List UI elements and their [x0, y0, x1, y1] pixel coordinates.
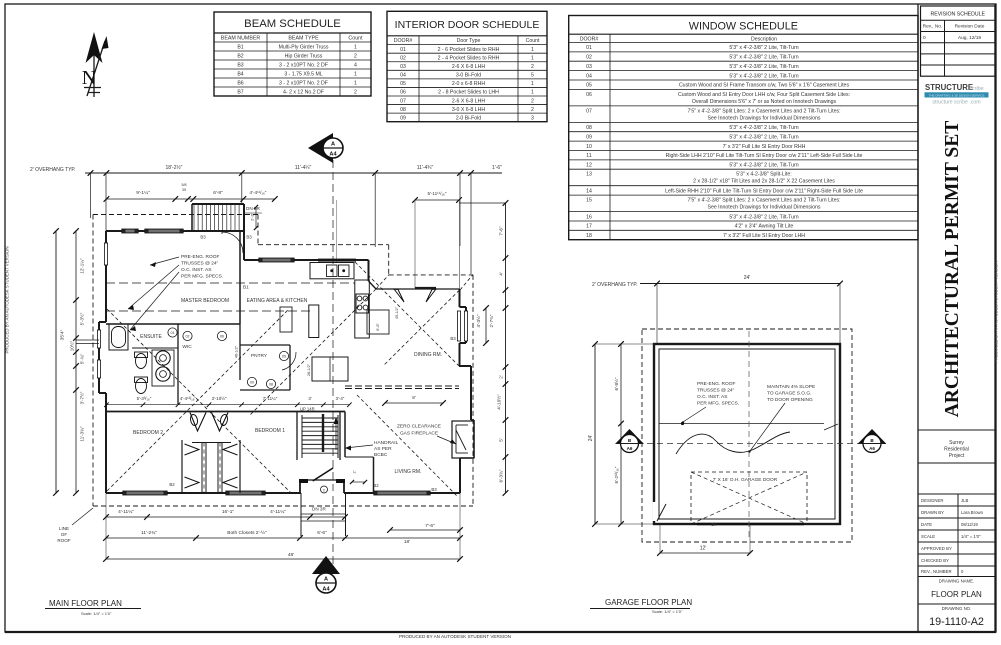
svg-text:HANDRAIL: HANDRAIL [374, 440, 399, 446]
svg-text:TRUSSES @ 24": TRUSSES @ 24" [181, 261, 219, 267]
svg-text:Door Type: Door Type [457, 38, 481, 44]
svg-text:2 - 8 Pocket Slides to LHH: 2 - 8 Pocket Slides to LHH [438, 90, 499, 96]
svg-text:1/4" = 1'0": 1/4" = 1'0" [961, 534, 981, 539]
svg-text:LINE: LINE [59, 526, 69, 531]
svg-text:Custom Wood and SI Entry Door: Custom Wood and SI Entry Door LHH c/w, F… [678, 92, 850, 98]
svg-text:Count: Count [526, 38, 540, 44]
svg-text:06: 06 [220, 335, 224, 339]
svg-text:16: 16 [586, 214, 592, 220]
svg-text:10: 10 [586, 144, 592, 150]
svg-text:18'-2½": 18'-2½" [166, 164, 183, 171]
svg-text:09: 09 [586, 134, 592, 140]
svg-text:B7: B7 [237, 90, 243, 96]
svg-text:A6: A6 [869, 446, 875, 451]
svg-text:Lara Brown: Lara Brown [961, 510, 984, 515]
svg-text:A4: A4 [322, 587, 330, 593]
svg-text:B3: B3 [200, 235, 206, 240]
svg-text:09: 09 [250, 381, 254, 385]
svg-text:Scale: 1/4" = 1'0": Scale: 1/4" = 1'0" [81, 611, 112, 616]
svg-text:B2: B2 [373, 483, 379, 488]
svg-text:09: 09 [400, 115, 406, 121]
svg-text:Multi-Ply Girder Truss: Multi-Ply Girder Truss [279, 45, 329, 51]
svg-text:1: 1 [531, 90, 534, 96]
svg-text:B3: B3 [246, 235, 252, 240]
svg-text:DRAWN BY: DRAWN BY [921, 510, 944, 515]
svg-text:Overall Dimensions 5'6" x 7' o: Overall Dimensions 5'6" x 7' or as Noted… [692, 99, 837, 105]
svg-text:EATING AREA & KITCHEN: EATING AREA & KITCHEN [247, 298, 308, 304]
svg-text:17: 17 [586, 224, 592, 230]
svg-text:5'-3½": 5'-3½" [79, 312, 85, 325]
svg-text:TRUSSES @ 24": TRUSSES @ 24" [697, 388, 735, 394]
svg-text:PNTRY: PNTRY [251, 353, 268, 359]
svg-text:7'5" x 4'-2-3/8" Split Lites:: 7'5" x 4'-2-3/8" Split Lites: 2 x Caseme… [687, 198, 840, 204]
svg-text:N: N [82, 67, 96, 89]
svg-text:Residential: Residential [944, 447, 969, 453]
svg-text:7'-6": 7'-6" [425, 523, 435, 529]
svg-text:structure scribe .com: structure scribe .com [932, 100, 980, 106]
svg-text:B2: B2 [237, 54, 243, 60]
svg-text:4'-10½": 4'-10½" [496, 394, 502, 410]
svg-text:WIC: WIC [182, 344, 192, 350]
svg-text:13: 13 [586, 172, 592, 178]
svg-text:1: 1 [531, 81, 534, 87]
svg-text:2 - 4 Pocket Slides to RHH: 2 - 4 Pocket Slides to RHH [438, 55, 500, 61]
svg-text:2-0 Bi-Fold: 2-0 Bi-Fold [456, 115, 481, 121]
svg-text:4: 4 [354, 63, 357, 69]
svg-text:6'-8": 6'-8" [213, 190, 223, 196]
svg-text:BEDROOM 1: BEDROOM 1 [255, 428, 285, 434]
svg-text:12': 12' [700, 546, 707, 552]
svg-text:LIVING RM.: LIVING RM. [395, 469, 422, 475]
svg-text:01: 01 [586, 45, 592, 51]
svg-text:MAINTAIN 4% SLOPE: MAINTAIN 4% SLOPE [767, 384, 815, 390]
svg-text:2: 2 [531, 64, 534, 70]
svg-text:16'-1": 16'-1" [222, 509, 235, 515]
svg-text:DRAWING NAME.: DRAWING NAME. [939, 579, 974, 584]
svg-text:MAIN FLOOR PLAN: MAIN FLOOR PLAN [49, 599, 122, 608]
svg-text:C: C [323, 488, 326, 492]
svg-text:5'3" x 4'-2-3/8" 2 Lite, Tilt-: 5'3" x 4'-2-3/8" 2 Lite, Tilt-Turn [729, 64, 798, 70]
svg-text:35: 35 [182, 188, 186, 192]
svg-text:15: 15 [586, 198, 592, 204]
svg-text:03: 03 [586, 64, 592, 70]
svg-text:05: 05 [586, 83, 592, 89]
svg-text:5'-11¹¹/₁₆": 5'-11¹¹/₁₆" [427, 191, 446, 196]
svg-text:4'-11¼": 4'-11¼" [270, 509, 286, 515]
svg-text:Scale: 1/4" = 1'0": Scale: 1/4" = 1'0" [652, 609, 683, 614]
svg-text:19-1110-A2: 19-1110-A2 [929, 616, 984, 628]
svg-text:3: 3 [531, 115, 534, 121]
svg-text:A6: A6 [627, 446, 633, 451]
svg-text:THE DRAFTING & 3D DESIGN SERVI: THE DRAFTING & 3D DESIGN SERVICE [929, 93, 985, 97]
svg-text:05: 05 [400, 81, 406, 87]
svg-text:35'4": 35'4" [60, 329, 66, 340]
svg-text:6'-6": 6'-6" [376, 323, 380, 331]
svg-text:5'3" x 4'-2-3/8" 2 Lite, Tilt-: 5'3" x 4'-2-3/8" 2 Lite, Tilt-Turn [729, 214, 798, 220]
svg-text:49-1/2": 49-1/2" [395, 306, 399, 319]
svg-text:FLOOR PLAN: FLOOR PLAN [931, 590, 982, 599]
svg-text:3 - 2 x10PT No. 2 DF: 3 - 2 x10PT No. 2 DF [279, 81, 328, 87]
svg-text:INTERIOR DOOR SCHEDULE: INTERIOR DOOR SCHEDULE [395, 19, 540, 31]
svg-text:Project: Project [949, 453, 965, 459]
svg-text:2': 2' [499, 375, 504, 379]
svg-text:OF: OF [61, 532, 68, 537]
svg-text:04: 04 [400, 73, 406, 79]
svg-text:1: 1 [354, 45, 357, 51]
svg-text:Surrey: Surrey [949, 440, 964, 446]
svg-text:4'2" x 3'4" Awning Tilt Lite: 4'2" x 3'4" Awning Tilt Lite [735, 224, 794, 230]
svg-text:14: 14 [586, 188, 592, 194]
svg-text:18: 18 [586, 233, 592, 239]
svg-text:WINDOW SCHEDULE: WINDOW SCHEDULE [689, 21, 798, 33]
svg-text:Count: Count [348, 36, 363, 42]
svg-text:PER MFG. SPECS.: PER MFG. SPECS. [697, 401, 739, 407]
svg-text:DESIGNER: DESIGNER [921, 498, 943, 503]
svg-text:5: 5 [531, 73, 534, 79]
svg-text:B2: B2 [169, 482, 175, 487]
svg-text:2: 2 [531, 107, 534, 113]
svg-text:48': 48' [288, 552, 294, 558]
svg-text:Aug, 12/19: Aug, 12/19 [958, 35, 982, 41]
svg-text:B1: B1 [237, 45, 243, 51]
svg-text:02: 02 [186, 335, 190, 339]
svg-text:A: A [324, 577, 328, 583]
svg-text:11'-4¾": 11'-4¾" [417, 165, 434, 171]
svg-text:2' OVERHANG TYP.: 2' OVERHANG TYP. [30, 167, 76, 173]
svg-text:B6: B6 [237, 81, 243, 87]
svg-text:05: 05 [282, 355, 286, 359]
svg-text:PRODUCED BY AN AUTODESK STUDEN: PRODUCED BY AN AUTODESK STUDENT VERSION [399, 634, 511, 639]
svg-text:4'-4¹³/₁₆": 4'-4¹³/₁₆" [180, 396, 197, 401]
svg-text:02: 02 [586, 55, 592, 61]
svg-text:5'3" x 4'-2-3/8" 2 Lite, Tilt-: 5'3" x 4'-2-3/8" 2 Lite, Tilt-Turn [729, 73, 798, 79]
svg-text:TO GARAGE S.O.G.: TO GARAGE S.O.G. [767, 391, 811, 397]
svg-text:5/8: 5/8 [182, 183, 187, 187]
svg-text:Custom Wood and SI Frame Trans: Custom Wood and SI Frame Transom c/w, Tw… [679, 83, 850, 89]
svg-text:BEAM SCHEDULE: BEAM SCHEDULE [244, 18, 341, 30]
svg-text:4- 2 x 12 No.2 DF: 4- 2 x 12 No.2 DF [283, 90, 324, 96]
svg-text:1'-6": 1'-6" [492, 165, 502, 171]
svg-text:2 - 6 Pocket Slides to RHH: 2 - 6 Pocket Slides to RHH [438, 47, 500, 53]
svg-text:7'5" x 4'-2-3/8" Split Lites:: 7'5" x 4'-2-3/8" Split Lites: 2 x Caseme… [687, 108, 840, 114]
svg-text:Rev., No.: Rev., No. [923, 24, 943, 30]
svg-text:01: 01 [171, 331, 175, 335]
svg-text:APPROVED BY: APPROVED BY [921, 546, 952, 551]
svg-text:3 - 1.75 X9.5 ML: 3 - 1.75 X9.5 ML [284, 72, 322, 78]
svg-text:2': 2' [352, 470, 357, 473]
svg-text:11'-4¼": 11'-4¼" [295, 165, 312, 171]
svg-text:3'-10½": 3'-10½" [212, 396, 227, 401]
svg-text:3': 3' [308, 396, 311, 401]
svg-text:5'3" x 4'-2-3/8" 2 Lite, Tilt-: 5'3" x 4'-2-3/8" 2 Lite, Tilt-Turn [729, 125, 798, 131]
svg-text:DN 9R: DN 9R [246, 206, 260, 211]
svg-text:11: 11 [586, 153, 591, 159]
svg-text:24': 24' [744, 275, 751, 281]
svg-text:scribe: scribe [969, 86, 984, 92]
svg-text:O.C. INST. AS: O.C. INST. AS [697, 394, 727, 400]
svg-text:DOOR#: DOOR# [580, 36, 599, 42]
svg-text:4'-11¼": 4'-11¼" [118, 509, 134, 515]
svg-text:4': 4' [499, 272, 504, 276]
svg-text:PRE-ENG. ROOF: PRE-ENG. ROOF [181, 254, 219, 260]
svg-text:ZERO CLEARANCE: ZERO CLEARANCE [397, 424, 441, 430]
svg-text:07: 07 [400, 98, 406, 104]
svg-text:2-0 x 6-8 RHH: 2-0 x 6-8 RHH [452, 81, 485, 87]
svg-text:BEAM TYPE: BEAM TYPE [288, 36, 319, 42]
svg-text:ARCHITECTURAL PERMIT SET: ARCHITECTURAL PERMIT SET [942, 121, 963, 418]
svg-text:03: 03 [400, 64, 406, 70]
svg-text:04: 04 [586, 73, 592, 79]
svg-text:2' OVERHANG TYP.: 2' OVERHANG TYP. [592, 282, 638, 288]
svg-text:10½": 10½" [69, 340, 75, 351]
svg-text:SCALE: SCALE [921, 534, 935, 539]
svg-text:REV., NUMBER: REV., NUMBER [921, 569, 952, 574]
svg-text:1: 1 [531, 55, 534, 61]
svg-text:B3: B3 [431, 487, 437, 492]
svg-text:2-6 X 6-8 LHH: 2-6 X 6-8 LHH [452, 64, 485, 70]
svg-text:3-0 Bi-Fold: 3-0 Bi-Fold [456, 73, 481, 79]
svg-text:24': 24' [588, 435, 594, 442]
svg-text:2'-7¾": 2'-7¾" [489, 314, 494, 327]
svg-text:PRODUCED BY AN AUTODESK STUDEN: PRODUCED BY AN AUTODESK STUDENT VERSION [994, 261, 999, 363]
svg-text:DOOR#: DOOR# [394, 38, 413, 44]
svg-text:8': 8' [412, 395, 416, 400]
svg-text:Right-Side LHH 2'10" Full Lite: Right-Side LHH 2'10" Full Lite Tilt-Turn… [666, 153, 863, 159]
svg-text:DRAWING NO.: DRAWING NO. [942, 606, 971, 611]
svg-text:2: 2 [354, 54, 357, 60]
svg-text:GARAGE FLOOR PLAN: GARAGE FLOOR PLAN [605, 598, 692, 607]
svg-text:5'-3³/₁₆": 5'-3³/₁₆" [137, 396, 152, 401]
svg-text:12: 12 [586, 163, 592, 169]
svg-text:6'-8½": 6'-8½" [613, 377, 619, 390]
svg-text:CHECKED BY: CHECKED BY [921, 558, 949, 563]
svg-text:3 - 2 x10PT No. 2 DF: 3 - 2 x10PT No. 2 DF [279, 63, 328, 69]
svg-text:BEDROOM 2: BEDROOM 2 [133, 430, 163, 436]
svg-text:PER MFG. SPECS.: PER MFG. SPECS. [181, 274, 223, 280]
svg-text:B3: B3 [450, 336, 456, 341]
svg-text:GAS FIREPLACE: GAS FIREPLACE [400, 431, 438, 437]
svg-text:PRODUCED BY AN AUTODESK STUDEN: PRODUCED BY AN AUTODESK STUDENT VERSION [5, 246, 10, 353]
svg-text:7' X 16' O.H. GARAGE DOOR: 7' X 16' O.H. GARAGE DOOR [713, 477, 778, 483]
svg-text:6'-2¹³/₁₆": 6'-2¹³/₁₆" [614, 466, 619, 483]
svg-text:2'-3": 2'-3" [250, 213, 255, 221]
svg-text:08: 08 [400, 107, 406, 113]
svg-text:46-1/2": 46-1/2" [235, 345, 239, 358]
svg-text:PRE-ENG. ROOF: PRE-ENG. ROOF [697, 381, 735, 387]
svg-text:5': 5' [499, 438, 504, 442]
svg-text:B4: B4 [237, 72, 243, 78]
svg-text:1: 1 [354, 81, 357, 87]
svg-text:2 x 28-1/2" x18" Tilt Lites an: 2 x 28-1/2" x18" Tilt Lites and 2x 28-1/… [693, 179, 835, 185]
svg-text:0: 0 [923, 35, 926, 41]
svg-text:3'-7½": 3'-7½" [79, 391, 85, 404]
svg-text:2-6 X 6-8 LHH: 2-6 X 6-8 LHH [452, 98, 485, 104]
svg-text:5'3" x 4'-2-3/8" 2 Lite, Tilt-: 5'3" x 4'-2-3/8" 2 Lite, Tilt-Turn [729, 163, 798, 169]
svg-text:3'-4": 3'-4" [336, 396, 345, 401]
svg-text:See Innotech Drawings for Indi: See Innotech Drawings for Individual Dim… [707, 115, 820, 121]
svg-text:5'-¾": 5'-¾" [80, 353, 85, 364]
svg-text:08: 08 [586, 125, 592, 131]
svg-text:7' x 3'2" Full Lite SI Entry D: 7' x 3'2" Full Lite SI Entry Door LHH [723, 233, 805, 239]
svg-text:Both Closets 2'-½": Both Closets 2'-½" [227, 529, 267, 536]
svg-text:1: 1 [354, 72, 357, 78]
svg-text:3-0 X 6-8 LHH: 3-0 X 6-8 LHH [452, 107, 485, 113]
svg-text:08/12/19: 08/12/19 [961, 522, 978, 527]
svg-text:7'-11¼": 7'-11¼" [263, 396, 278, 401]
svg-text:11'-3¾": 11'-3¾" [80, 426, 85, 441]
svg-text:5'3" x 4'-2-3/8" 2 Lite, Tilt-: 5'3" x 4'-2-3/8" 2 Lite, Tilt-Turn [729, 45, 798, 51]
svg-text:A4: A4 [329, 152, 337, 158]
svg-text:5'3" x 4'-2-3/8" 2 Lite, Tilt-: 5'3" x 4'-2-3/8" 2 Lite, Tilt-Turn [729, 55, 798, 61]
svg-text:A: A [331, 142, 335, 148]
svg-text:Hip Girder Truss: Hip Girder Truss [285, 54, 323, 60]
svg-text:BCBC: BCBC [374, 452, 388, 458]
svg-text:See Innotech Drawings for Indi: See Innotech Drawings for Individual Dim… [707, 205, 820, 211]
svg-text:28-1/2": 28-1/2" [307, 363, 311, 376]
svg-text:DINING RM.: DINING RM. [414, 352, 442, 358]
svg-text:2: 2 [354, 90, 357, 96]
svg-text:6'-3¾": 6'-3¾" [499, 469, 504, 482]
svg-text:11'-2¾": 11'-2¾" [141, 530, 157, 536]
svg-text:Description: Description [751, 36, 777, 42]
svg-text:1: 1 [531, 47, 534, 53]
svg-text:2: 2 [531, 98, 534, 104]
svg-text:Revision Date: Revision Date [955, 24, 985, 30]
svg-text:08: 08 [269, 383, 273, 387]
svg-text:6'-6": 6'-6" [317, 530, 327, 536]
svg-text:UP 14R: UP 14R [300, 407, 315, 412]
svg-text:O.C. INST. AS: O.C. INST. AS [181, 267, 211, 273]
svg-text:MASTER BEDROOM: MASTER BEDROOM [181, 298, 229, 304]
svg-text:4'-3½": 4'-3½" [475, 314, 481, 327]
svg-text:5'3" x 4-2-3/8" Split-Lite:: 5'3" x 4-2-3/8" Split-Lite: [736, 172, 791, 178]
svg-text:01: 01 [400, 47, 406, 53]
svg-text:5'3" x 4'-2-3/8" 2 Lite, Tilt-: 5'3" x 4'-2-3/8" 2 Lite, Tilt-Turn [729, 134, 798, 140]
svg-text:4'-4¹¹/₁₆": 4'-4¹¹/₁₆" [250, 190, 267, 195]
svg-text:BEAM NUMBER: BEAM NUMBER [221, 36, 261, 42]
svg-text:06: 06 [586, 92, 592, 98]
svg-text:B3: B3 [237, 63, 243, 69]
svg-text:B1: B1 [243, 285, 249, 290]
svg-text:AS PER: AS PER [374, 446, 392, 452]
svg-text:06: 06 [400, 90, 406, 96]
svg-text:7'-6": 7'-6" [499, 226, 504, 236]
svg-text:STRUCTURE: STRUCTURE [925, 83, 973, 92]
svg-text:07: 07 [586, 108, 592, 114]
svg-text:ROOF: ROOF [57, 538, 70, 543]
svg-text:DATE: DATE [921, 522, 932, 527]
svg-text:9'-1¼": 9'-1¼" [136, 190, 150, 196]
svg-text:18': 18' [404, 539, 410, 545]
svg-text:12'-1¼": 12'-1¼" [80, 258, 85, 274]
svg-text:7' x 3'2" Full Lite SI Entry D: 7' x 3'2" Full Lite SI Entry Door RHH [723, 144, 806, 150]
svg-text:ENSUITE: ENSUITE [140, 334, 162, 340]
svg-text:DN 3R: DN 3R [312, 507, 326, 512]
svg-text:Left-Side RHH 2'10" Full Lite: Left-Side RHH 2'10" Full Lite Tilt-Turn … [665, 188, 863, 194]
svg-text:REVISION SCHEDULE: REVISION SCHEDULE [931, 12, 986, 18]
svg-text:02: 02 [400, 55, 406, 61]
svg-text:B4: B4 [711, 522, 717, 527]
svg-text:TO DOOR OPENING: TO DOOR OPENING [767, 397, 813, 403]
svg-text:JLB: JLB [961, 498, 969, 503]
